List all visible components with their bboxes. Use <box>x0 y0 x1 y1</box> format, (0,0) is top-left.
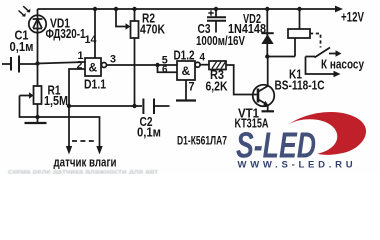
svg-text:1N4148: 1N4148 <box>228 22 266 36</box>
node junction collector <box>265 54 269 58</box>
svg-text:0,1м: 0,1м <box>137 126 161 140</box>
wire C1 to D1.1 pin 1 <box>38 62 86 64</box>
wire +12V top rail <box>38 8 337 10</box>
node junction rail pin14 <box>93 7 97 11</box>
wire to D1.2 pin5 <box>158 64 178 66</box>
node junction C1/VD1/R1 <box>35 61 39 65</box>
svg-text:4: 4 <box>200 51 206 63</box>
ground D1.2 pin7 <box>176 80 196 101</box>
node junction rail relay <box>297 7 301 11</box>
resistor R3 <box>209 61 257 95</box>
node junction pins 5-6 <box>155 63 159 67</box>
svg-text:D1.1: D1.1 <box>84 78 106 92</box>
wire R2 bottom lead <box>134 38 136 106</box>
svg-text:К насосу: К насосу <box>321 58 364 72</box>
wire node B to C2 <box>69 105 142 107</box>
wire sensor dashed electrode <box>72 140 97 142</box>
wire dashed relay actuator <box>310 34 321 48</box>
svg-text:+12V: +12V <box>341 10 364 25</box>
svg-text:D1-К561ЛА7: D1-К561ЛА7 <box>177 134 227 148</box>
capacitor C1 <box>2 56 38 73</box>
transistor VT1 <box>253 57 275 112</box>
wire ground bus to sensor right terminal <box>38 117 100 147</box>
svg-text:0,1м: 0,1м <box>10 40 34 54</box>
resistor R2 (trimmer 470K) <box>116 9 139 38</box>
node junction R1 bottom <box>35 115 39 119</box>
svg-text:WWW.S-LED.RU: WWW.S-LED.RU <box>238 160 357 171</box>
op-amp gate D1.1 <box>85 9 158 76</box>
svg-text:BS-118-1C: BS-118-1C <box>275 79 325 93</box>
svg-text:6: 6 <box>162 64 168 76</box>
node junction R2/C2 <box>132 104 136 108</box>
node junction B <box>67 104 71 108</box>
switch contact K1.1 <box>306 48 342 78</box>
wire D1.1 pin2 to node B <box>69 69 85 106</box>
op-amp gate D1.2 <box>177 61 209 80</box>
node junction rail R2 wiper <box>114 7 118 11</box>
node junction rail C3 <box>214 7 218 11</box>
svg-text:1,5М: 1,5М <box>44 94 68 108</box>
node sensor right arrow <box>96 146 102 155</box>
logo S-LED red swoosh <box>288 112 366 155</box>
node junction rail VD2 <box>265 7 269 11</box>
capacitor C3 electrolytic <box>207 9 226 33</box>
diode VD2 <box>261 9 273 57</box>
svg-text:схема реле датчика влажности д: схема реле датчика влажности для авт <box>8 169 159 174</box>
svg-text:14: 14 <box>85 34 98 46</box>
svg-text:6,2K: 6,2K <box>206 80 228 94</box>
svg-text:2: 2 <box>77 59 83 71</box>
svg-text:датчик влаги: датчик влаги <box>54 156 117 170</box>
node rail arrowhead +12V <box>335 6 343 13</box>
svg-text:&: & <box>89 61 98 75</box>
svg-text:1000м/16V: 1000м/16V <box>196 34 246 48</box>
svg-text:3: 3 <box>110 53 116 65</box>
resistor R1 (trimmer) <box>20 64 42 118</box>
capacitor C2 <box>143 99 169 115</box>
svg-text:470K: 470K <box>140 23 165 37</box>
svg-text:7: 7 <box>189 81 195 93</box>
relay K1 coil <box>267 9 310 57</box>
ground R1 <box>25 117 47 123</box>
svg-text:&: & <box>182 64 191 78</box>
node sensor left arrow <box>66 146 72 155</box>
svg-text:D1.2: D1.2 <box>174 49 195 63</box>
wire to D1.2 pin6 <box>158 65 178 72</box>
photodiode VD1 <box>19 6 47 63</box>
node junction rail R2 top <box>132 7 136 11</box>
svg-text:ФД320-1: ФД320-1 <box>46 27 86 41</box>
wire sensor left terminal <box>68 106 70 147</box>
